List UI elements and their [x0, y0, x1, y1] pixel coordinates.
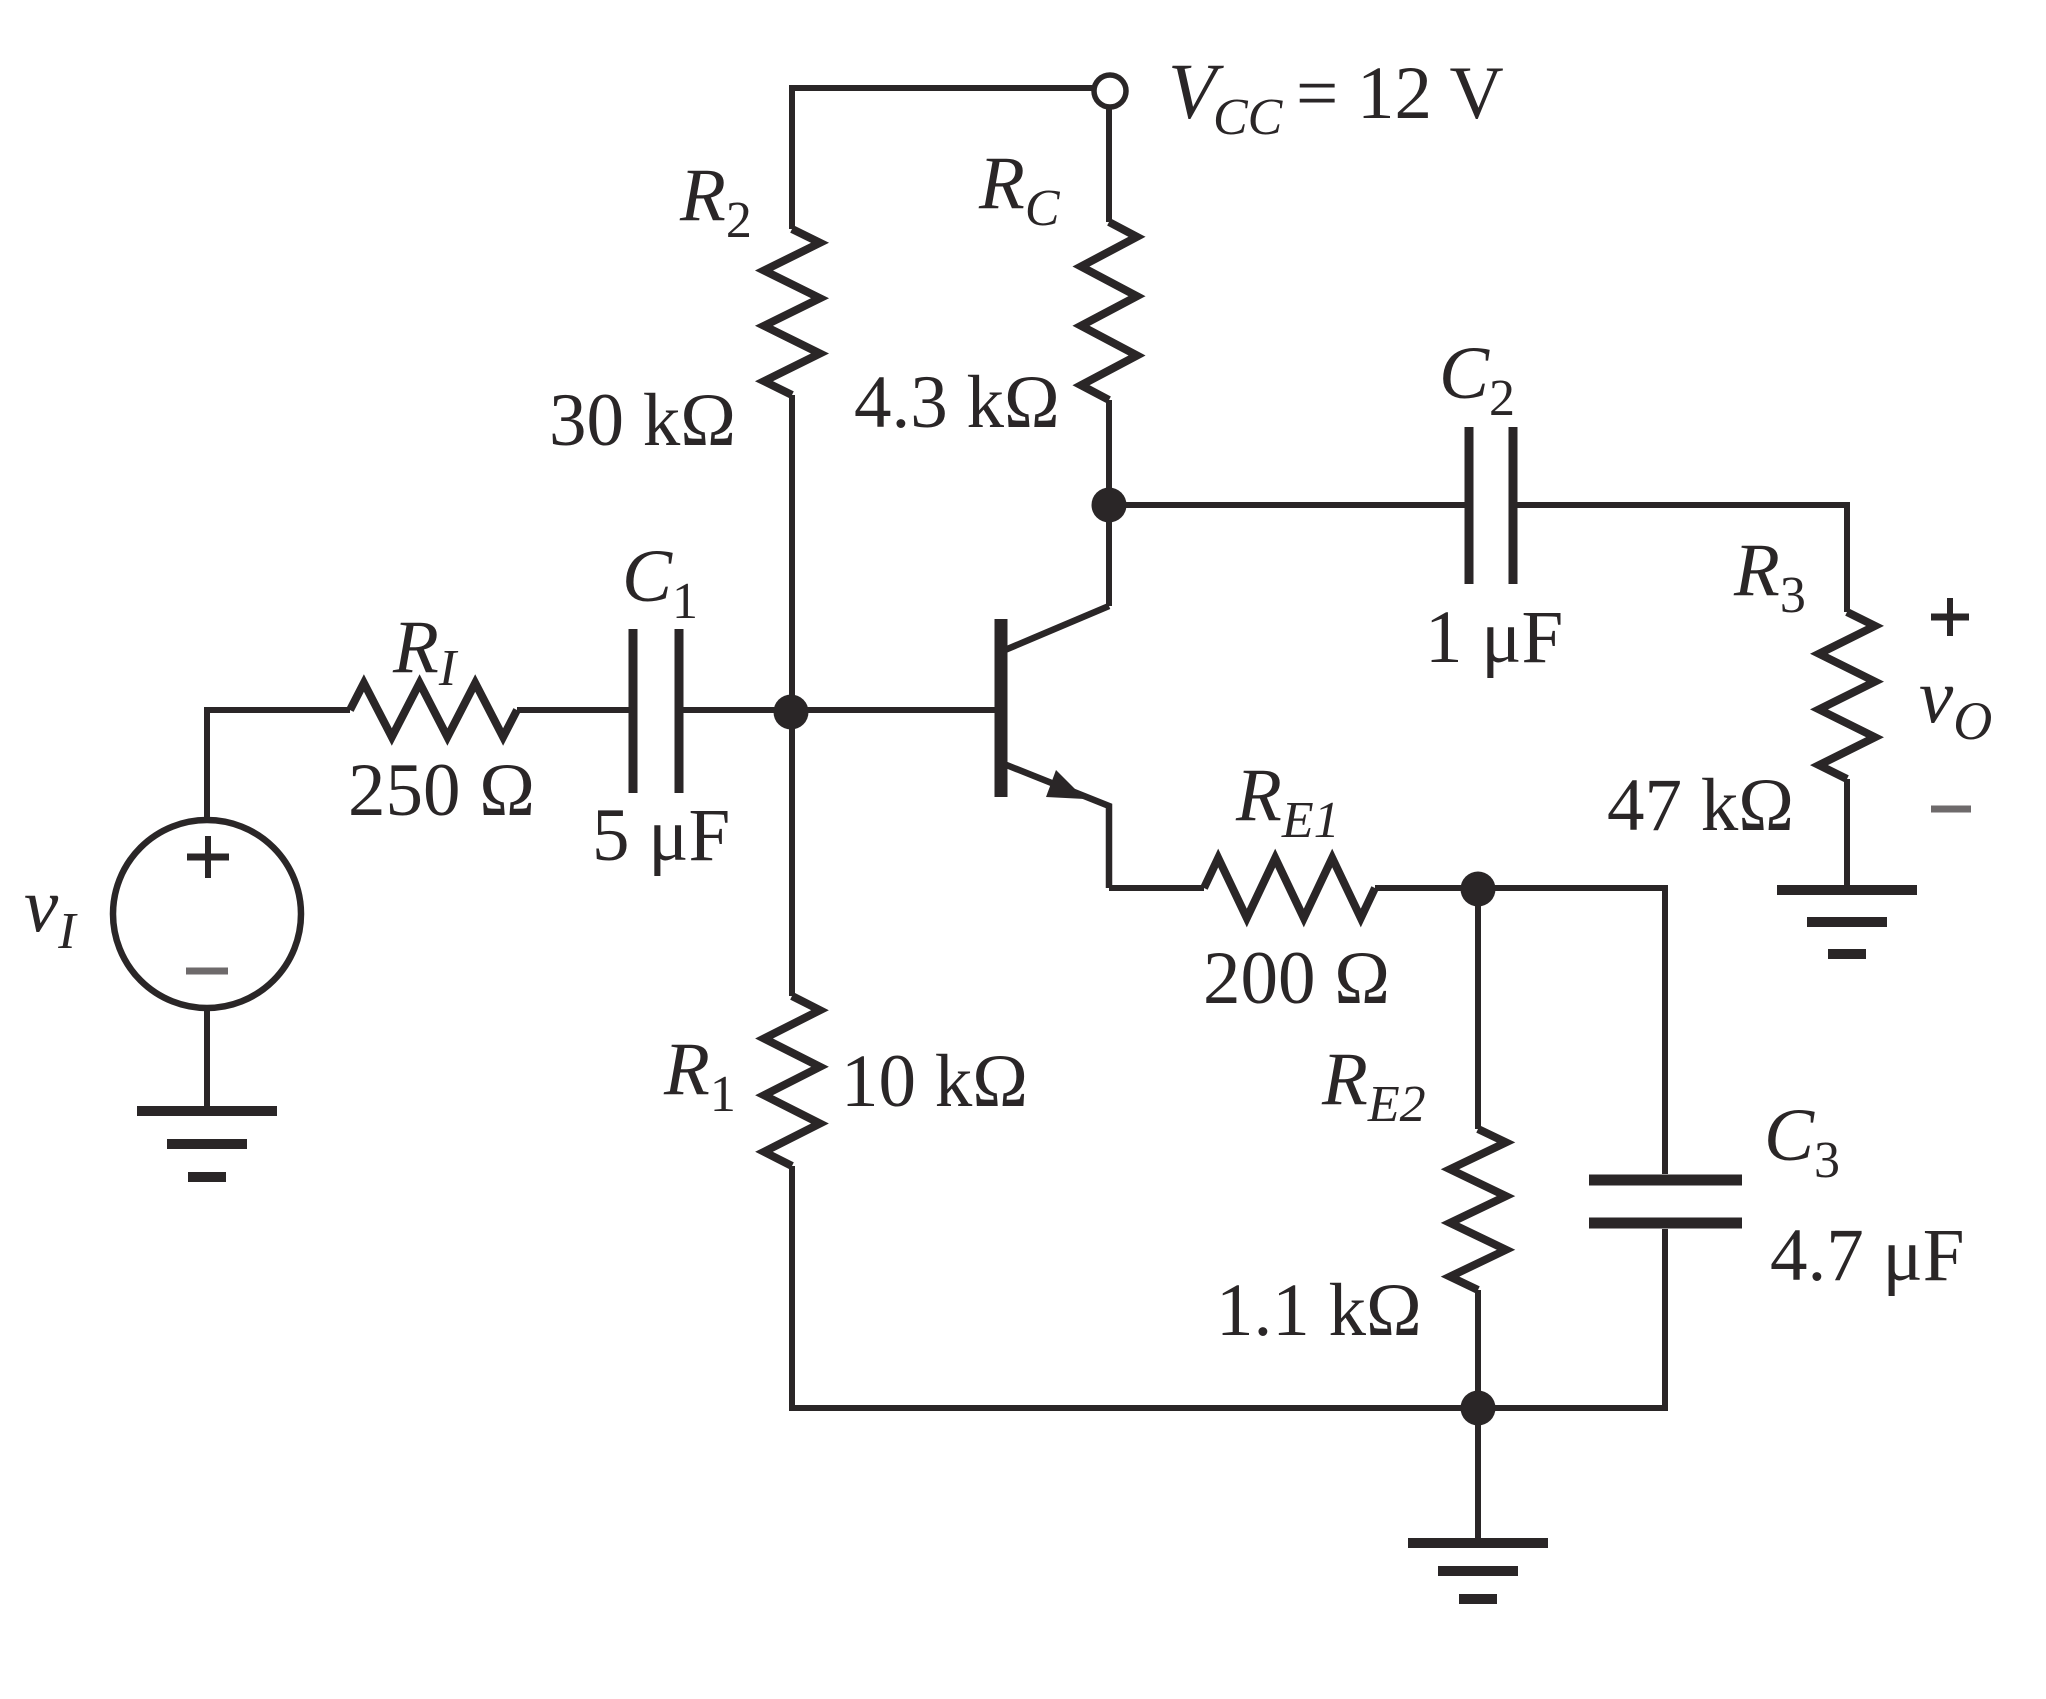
node collector junction — [1092, 488, 1127, 523]
transistor Q1 emitter lead — [1004, 764, 1109, 888]
svg-text:47 kΩ: 47 kΩ — [1607, 764, 1794, 847]
resistor R3 47 kohm — [1819, 612, 1875, 779]
resistor RE2 1.1 kohm — [1450, 1129, 1506, 1290]
svg-text:C1: C1 — [622, 535, 698, 630]
svg-text:1 μF: 1 μF — [1425, 596, 1563, 679]
resistor RC 4.3 kohm — [1081, 222, 1137, 400]
svg-text:= 12 V: = 12 V — [1296, 52, 1504, 135]
transistor Q1 emitter arrow — [1046, 770, 1085, 799]
wire RC bottom to collector node — [1106, 400, 1112, 606]
resistor R1 10 kohm — [764, 996, 820, 1166]
capacitor C3 4.7uF plates — [1589, 1175, 1742, 1186]
wire top rail from R2 column to VCC terminal — [792, 88, 1094, 229]
svg-text:4.7 μF: 4.7 μF — [1770, 1214, 1964, 1297]
svg-text:250 Ω: 250 Ω — [348, 749, 535, 832]
wire RE1 to emitter node and to C3 branch corner — [1375, 888, 1665, 1174]
svg-text:R3: R3 — [1733, 529, 1806, 624]
wire C3 bottom to bottom rail — [1478, 1229, 1665, 1408]
svg-text:RE2: RE2 — [1321, 1038, 1426, 1133]
node bottom junction — [1461, 1391, 1496, 1426]
svg-text:30 kΩ: 30 kΩ — [549, 379, 736, 462]
wire source top to RI — [207, 710, 350, 820]
- polarity mark inside source — [186, 968, 228, 975]
svg-text:RI: RI — [392, 606, 459, 697]
wire C1 to transistor base through node — [683, 707, 995, 713]
+ polarity mark inside source — [187, 854, 229, 861]
power terminal VCC open circle — [1094, 75, 1126, 107]
ground below source — [137, 1106, 277, 1116]
capacitor C1 5uF plates — [629, 629, 638, 793]
wire bottom node to ground — [1475, 1408, 1481, 1539]
svg-text:200 Ω: 200 Ω — [1203, 937, 1390, 1020]
svg-text:vO: vO — [1919, 653, 1992, 751]
svg-text:5 μF: 5 μF — [592, 794, 730, 877]
resistor R2 30 kohm — [764, 229, 820, 395]
ground below bottom node — [1408, 1538, 1548, 1548]
wire RI to C1 — [517, 707, 629, 713]
svg-text:1.1 kΩ: 1.1 kΩ — [1216, 1269, 1422, 1352]
transistor Q1 collector lead — [1005, 606, 1109, 650]
wire C2 to R3 column — [1517, 505, 1847, 612]
label + output polarity — [1931, 614, 1969, 621]
voltage source vI circle — [113, 820, 301, 1008]
svg-text:4.3 kΩ: 4.3 kΩ — [854, 361, 1060, 444]
wire VCC terminal down to RC — [1106, 108, 1112, 222]
wire source bottom to ground — [204, 1008, 210, 1111]
wire R3 bottom to ground — [1844, 779, 1850, 890]
svg-text:C2: C2 — [1439, 332, 1515, 427]
resistor RE1 200 ohm — [1204, 858, 1375, 918]
wire node down to RE2 — [1475, 889, 1481, 1129]
svg-text:CC: CC — [1213, 89, 1284, 146]
svg-text:R2: R2 — [679, 154, 752, 249]
label - output polarity — [1931, 806, 1971, 813]
svg-text:10 kΩ: 10 kΩ — [841, 1040, 1028, 1123]
resistor RI 250 ohm — [350, 683, 517, 737]
wire R1 bottom to bottom rail — [792, 1166, 1478, 1408]
transistor Q1 bar — [995, 619, 1008, 797]
svg-text:R1: R1 — [663, 1028, 736, 1123]
svg-text:C3: C3 — [1764, 1094, 1840, 1189]
node emitter junction — [1461, 872, 1496, 907]
node base junction — [774, 695, 809, 730]
wire RE2 bottom to bottom rail — [1475, 1290, 1481, 1408]
wire collector node to C2 — [1109, 502, 1465, 508]
svg-text:vI: vI — [24, 862, 78, 960]
svg-text:RC: RC — [978, 142, 1061, 237]
capacitor C2 1uF plates — [1465, 427, 1474, 584]
svg-text:RE1: RE1 — [1235, 754, 1340, 849]
wire emitter to RE1 — [1109, 885, 1204, 891]
ground below R3 — [1777, 885, 1917, 895]
wire R2 bottom to base node to R1 top — [789, 395, 795, 996]
